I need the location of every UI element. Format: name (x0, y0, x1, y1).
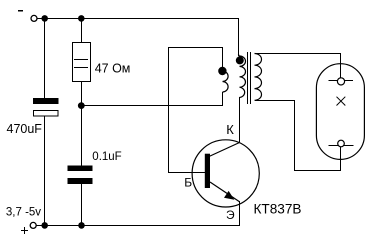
svg-text:0.1uF: 0.1uF (92, 151, 121, 163)
svg-text:47 Ом: 47 Ом (95, 62, 131, 76)
svg-text:470uF: 470uF (7, 122, 43, 136)
svg-text:К: К (226, 122, 234, 137)
svg-text:Э: Э (226, 208, 235, 222)
svg-text:Б: Б (184, 176, 192, 190)
svg-text:3,7 -5v: 3,7 -5v (6, 207, 41, 219)
svg-text:КТ837В: КТ837В (254, 201, 302, 216)
